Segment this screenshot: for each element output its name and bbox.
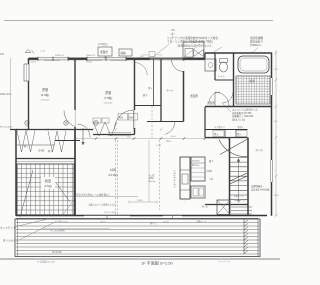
- entrance door arc: [219, 140, 248, 157]
- entrance door leaf: [220, 139, 248, 155]
- floor hatch X box: [217, 200, 230, 215]
- svg-text:収納: 収納: [121, 51, 127, 55]
- dim tick y129: [74, 128, 76, 130]
- top wall tick: [133, 58, 136, 61]
- svg-text:洋室: 洋室: [42, 87, 48, 92]
- exterior top wall right section: [205, 52, 272, 54]
- left leader 1: [14, 218, 52, 227]
- deck right hatch band: [244, 220, 248, 254]
- toilet left wall x=215: [214, 53, 216, 80]
- second door arc: [222, 92, 233, 103]
- leader 3: [252, 48, 258, 54]
- top wall solid seg 1: [29, 58, 39, 60]
- fridge box: [191, 186, 205, 198]
- V folding door 1a: [17, 131, 26, 153]
- left leader 2: [20, 221, 57, 240]
- svg-text:(6.0帖): (6.0帖): [41, 93, 50, 97]
- door gap x183: [183, 61, 185, 72]
- dim tick: [95, 137, 98, 140]
- svg-text:ウッドデッキ: ウッドデッキ: [0, 226, 16, 230]
- dashed line LDK 2: [117, 140, 119, 215]
- small box label on wall: [149, 52, 155, 57]
- top wall solid seg 2: [68, 58, 87, 60]
- toilet bottom wall y=80: [215, 79, 233, 81]
- svg-text:2,580: 2,580: [137, 200, 143, 202]
- exterior left wall lower: [15, 130, 17, 216]
- svg-text:1,160: 1,160: [156, 145, 162, 147]
- staircase treads: [230, 157, 248, 199]
- porch step line 3: [231, 213, 252, 215]
- wall y=140 closet band: [55, 140, 80, 142]
- tiny box label b: [102, 118, 109, 123]
- bath left wall x=233: [233, 53, 235, 107]
- svg-text:洗面所: 洗面所: [207, 101, 215, 105]
- W folding door bedroom2 closet: [93, 122, 117, 136]
- window right wall 78: [270, 78, 272, 95]
- hall wall x=161: [160, 59, 162, 122]
- bathtub: [238, 56, 269, 73]
- dim tick y129: [15, 128, 17, 130]
- kitchen sink: [182, 174, 188, 184]
- partition tatami/LDK x=75: [74, 130, 76, 216]
- top wall medium seg hall: [150, 58, 184, 60]
- svg-text:1,820: 1,820: [157, 55, 163, 57]
- dim tick y129: [115, 128, 117, 130]
- top rule line: [4, 20, 273, 22]
- stair right wall x=248: [247, 138, 249, 216]
- window sill line 44: [44, 59, 60, 61]
- svg-text:CH=2.4m: CH=2.4m: [41, 100, 50, 102]
- hall/entry wall x=183: [183, 59, 185, 122]
- closet divider 2: [235, 130, 237, 137]
- dim tick y129: [160, 128, 162, 130]
- svg-text:1F 平面図 S=1:50: 1F 平面図 S=1:50: [141, 261, 173, 266]
- dim tick: [160, 137, 163, 140]
- svg-text:洗面所: 洗面所: [190, 94, 198, 98]
- svg-text:物入: 物入: [24, 144, 29, 148]
- wood deck outline: [15, 219, 260, 257]
- bath floor border: [236, 76, 270, 104]
- stair break line b: [230, 176, 248, 184]
- toilet fixture: [220, 59, 228, 63]
- tatami label halo: [41, 177, 55, 189]
- window sill line 86: [86, 59, 102, 61]
- top wall tick: [74, 58, 77, 61]
- closet divider: [224, 130, 226, 137]
- hall-washroom door arc: [172, 60, 184, 72]
- top wall tick mark: [105, 57, 107, 61]
- svg-text:W=3,640: W=3,640: [52, 251, 62, 254]
- stair arrow head: [237, 159, 240, 162]
- LDK door arc: [161, 121, 175, 135]
- svg-text:16520: 16520: [163, 222, 169, 224]
- wall y=129 bedrooms bottom west: [10, 129, 93, 131]
- dim tick y129: [65, 128, 67, 130]
- svg-text:CH=2.4m: CH=2.4m: [104, 103, 113, 105]
- top wall tick mark: [125, 57, 127, 61]
- dim tick y129: [92, 128, 94, 130]
- circled letter B: [64, 121, 68, 125]
- closet shelf line y=145: [17, 144, 55, 146]
- toilet door arc: [209, 92, 220, 103]
- svg-text:↑: ↑: [184, 201, 185, 204]
- bath floor grid hatch: [236, 76, 270, 104]
- right dim tick: [275, 79, 277, 81]
- closet strip wall x=153: [153, 59, 155, 106]
- top wall tick mark: [86, 57, 88, 61]
- thin line above tatami grid: [17, 161, 75, 163]
- top wall tick: [160, 58, 163, 61]
- closet tag box 2: [236, 131, 247, 137]
- door gap thin line x75: [74, 110, 76, 127]
- LDK entry door arc: [78, 124, 91, 138]
- dashed kitchen line upper: [151, 106, 153, 138]
- svg-text:押入: 押入: [48, 149, 53, 153]
- note leader: [62, 197, 76, 216]
- top wall tick mark: [67, 57, 69, 61]
- kitchen dim line 2580: [129, 201, 157, 203]
- left dimension line: [10, 58, 12, 129]
- wall y=106 below bath: [205, 106, 272, 108]
- svg-text:(16.0帖): (16.0帖): [108, 173, 118, 177]
- UB leader: [222, 103, 231, 112]
- wall x=205: [204, 107, 206, 138]
- corridor closet band top: [205, 129, 248, 131]
- svg-text:LDK: LDK: [110, 168, 117, 172]
- bath label halo: [245, 77, 259, 84]
- dim tick y129: [27, 128, 29, 130]
- arrow line: [82, 128, 84, 143]
- boxed label 2 above wall: [119, 49, 132, 56]
- closet tag box 1: [213, 131, 224, 137]
- right dim tick: [275, 105, 277, 107]
- bedroom2 bottom wall y=134: [93, 134, 135, 136]
- partition bedrooms x=75: [74, 59, 76, 130]
- boxed label bedroom2 b: [128, 114, 138, 121]
- svg-text:2934×1/2＝: 2934×1/2＝: [0, 93, 13, 96]
- svg-text:トイレ: トイレ: [218, 75, 226, 78]
- svg-text:1,820: 1,820: [170, 136, 176, 138]
- dashed kitchen line lower: [159, 140, 161, 210]
- deck left inner edge: [17, 219, 19, 257]
- exterior top wall thin line B: [29, 59, 206, 61]
- top wall jog: [204, 53, 206, 59]
- dim tick: [115, 137, 118, 140]
- arrow head down: [82, 142, 84, 145]
- exterior bottom wall inner: [16, 217, 258, 219]
- right dim tick: [275, 175, 277, 177]
- V folding door 2a: [48, 131, 57, 152]
- svg-text:2934×1/2: 2934×1/2: [86, 54, 96, 57]
- door gap x134: [134, 110, 136, 128]
- svg-text:C: C: [95, 122, 97, 125]
- svg-text:ポーチ: ポーチ: [255, 148, 263, 152]
- dim tick: [74, 137, 77, 140]
- second diagonal leader in tatami: [56, 183, 70, 202]
- thin line x=149: [148, 140, 150, 202]
- wall y=204 bottom of stairs: [205, 204, 248, 206]
- dashed line LDK 1: [115, 140, 117, 215]
- bottom rule line: [0, 258, 280, 260]
- left wall window line: [27, 64, 29, 81]
- leader box1 to wall: [104, 56, 106, 59]
- svg-text:910: 910: [0, 53, 5, 56]
- left wall window gap: [28, 64, 30, 81]
- svg-text:換気扇あり: 換気扇あり: [250, 40, 263, 44]
- top wall solid seg 3: [126, 58, 150, 60]
- bedroom1 door arc: [64, 111, 75, 127]
- dim tick: [228, 137, 231, 140]
- exterior top wall thin line A: [29, 57, 206, 59]
- exterior right wall: [271, 53, 273, 216]
- svg-text:16520: 16520: [30, 62, 37, 64]
- kitchen upper cabinet box: [191, 157, 205, 181]
- vanity: [205, 59, 216, 71]
- stair left wall x=229: [229, 138, 231, 216]
- tatami room grid hatch: [17, 164, 74, 215]
- washroom door arc: [215, 92, 229, 106]
- svg-text:和室: 和室: [45, 178, 51, 183]
- window bottom wall 84: [84, 216, 130, 219]
- door gap thin line x134: [133, 110, 135, 128]
- svg-text:16520: 16520: [100, 222, 106, 224]
- stair arrow line: [238, 160, 240, 201]
- stair break line a: [230, 173, 248, 181]
- hall door arc at x134: [135, 63, 148, 76]
- svg-text:H=2.1m: H=2.1m: [149, 181, 156, 183]
- wall y=137 corridor bottom: [205, 137, 248, 139]
- svg-text:16520+16520: 16520+16520: [104, 212, 117, 214]
- boxed label bedroom2 a: [118, 114, 128, 121]
- svg-text:デッキ=3,640: デッキ=3,640: [50, 229, 65, 233]
- dim tick y129: [133, 128, 135, 130]
- dim tick: [183, 137, 186, 140]
- svg-text:浴室乾燥機: 浴室乾燥機: [250, 36, 263, 40]
- svg-text:1,467: 1,467: [40, 51, 46, 53]
- leader diagonal through tatami: [20, 170, 33, 217]
- exterior left wall upper: [28, 58, 30, 130]
- deck plank lines: [16, 223, 259, 255]
- wall y=121: [147, 121, 184, 123]
- dim tick: [204, 137, 207, 140]
- porch step line 2: [231, 210, 252, 212]
- window in bedroom2 bottom wall: [108, 132, 131, 134]
- svg-text:2934×1/2: 2934×1/2: [55, 54, 65, 57]
- top wall tick: [27, 58, 30, 61]
- circled letter A: [25, 121, 29, 125]
- deck dim line: [42, 228, 110, 230]
- right dim tick: [275, 214, 277, 216]
- svg-text:タイルテラス: タイルテラス: [3, 239, 19, 243]
- svg-text:(7.5帖): (7.5帖): [104, 96, 113, 100]
- svg-text:洗面台: 洗面台: [100, 50, 108, 54]
- svg-text:付450mm: 付450mm: [250, 43, 261, 47]
- kitchen counter: [180, 157, 190, 199]
- bracket below 150: [172, 32, 174, 39]
- tiny box label a: [93, 118, 101, 123]
- window symbol left wall: [24, 64, 29, 81]
- svg-text:フローリング貼り/7尺天井(半間×7尺枠): フローリング貼り/7尺天井(半間×7尺枠): [167, 40, 213, 44]
- dim tick: [133, 137, 136, 140]
- leader 1b: [153, 44, 170, 58]
- svg-text:ホール: ホール: [166, 88, 174, 92]
- leader 1: [184, 44, 200, 57]
- right dim tick: [275, 136, 277, 138]
- leader 2: [212, 47, 222, 53]
- bedroom2 door arc: [115, 110, 134, 129]
- svg-text:910×4=3640: 910×4=3640: [0, 126, 13, 129]
- dim tick y129: [46, 128, 48, 130]
- window bottom wall 163: [163, 216, 182, 219]
- V folding door 1b: [26, 131, 35, 153]
- washer alcove box: [183, 42, 204, 58]
- tatami top wall y=158: [16, 158, 75, 160]
- svg-text:(4.5帖): (4.5帖): [44, 184, 52, 188]
- north/symbol cluster: [25, 50, 31, 53]
- door gap x75: [74, 110, 76, 127]
- interior dimension line y=138: [75, 138, 230, 140]
- deck right inner edge: [257, 219, 259, 257]
- exterior bottom wall outer: [16, 215, 267, 217]
- V folding door 2b: [57, 131, 66, 152]
- washer left rect: [185, 49, 193, 58]
- top wall tick mark: [52, 57, 54, 61]
- window sill line 110: [110, 59, 126, 61]
- window right wall 160: [270, 160, 272, 182]
- top wall solid seg 4: [184, 58, 206, 60]
- porch step line 1: [231, 206, 252, 208]
- right dimension line: [275, 50, 277, 216]
- boxed label 1 above wall: [98, 47, 112, 56]
- svg-text:洋室: 洋室: [105, 90, 111, 95]
- washer pan butterfly: [194, 50, 204, 57]
- right dim tick: [275, 52, 277, 54]
- circled letter C: [94, 121, 98, 125]
- tatami room border: [17, 164, 74, 215]
- top wall tick mark: [37, 57, 39, 61]
- svg-text:16520: 16520: [86, 62, 93, 64]
- svg-text:ジューテックの洗面化粧台750巾タイプ用意,: ジューテックの洗面化粧台750巾タイプ用意,: [167, 36, 219, 40]
- svg-text:W=1800: W=1800: [192, 161, 200, 163]
- bedroom2 right wall x=134: [134, 59, 136, 135]
- storage bottom wall y=105: [135, 105, 162, 107]
